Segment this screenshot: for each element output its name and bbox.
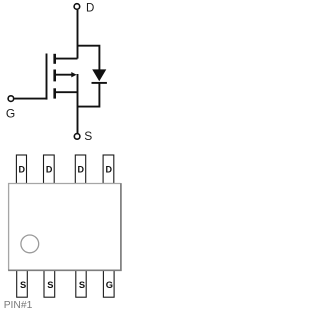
svg-text:S: S (84, 129, 92, 143)
wire body contact (55, 74, 74, 76)
svg-text:D: D (18, 165, 25, 175)
pin 5 bottom G (103, 270, 114, 297)
wire drain vertical (77, 10, 79, 59)
svg-text:D: D (46, 165, 53, 175)
wire diode-to-source (78, 83, 100, 107)
pin 6 bottom S (76, 270, 86, 297)
pin 4 top D (103, 155, 114, 184)
svg-text:S: S (20, 280, 26, 290)
svg-text:D: D (77, 165, 84, 175)
mosfet gate bar (46, 54, 48, 100)
wire drain-to-diode branch (78, 46, 100, 70)
diode cathode bar (92, 82, 107, 84)
terminal S circle (74, 134, 80, 140)
package body right and bottom edges (8, 183, 121, 270)
pin 7 bottom S (44, 270, 55, 297)
wire source contact (55, 91, 78, 93)
pin 8 bottom S (17, 270, 28, 297)
svg-text:S: S (47, 280, 53, 290)
svg-text:D: D (86, 2, 94, 14)
svg-text:S: S (79, 280, 85, 290)
mosfet channel segment 3 (53, 88, 56, 98)
wire gate (14, 98, 47, 100)
diode body-diode triangle (92, 69, 106, 81)
svg-text:G: G (106, 280, 113, 290)
pin 1 top D (16, 155, 26, 184)
pin1 indicator circle (21, 235, 39, 253)
pin 3 top D (75, 155, 85, 184)
package body (9, 184, 121, 271)
svg-text:D: D (105, 165, 112, 175)
terminal G circle (8, 96, 14, 102)
mosfet channel segment 2 (53, 70, 56, 82)
svg-text:G: G (6, 107, 15, 121)
package body top and left edges (9, 184, 121, 271)
body arrow (71, 72, 76, 77)
terminal D circle (74, 4, 80, 10)
wire drain contact (55, 58, 78, 60)
mosfet channel segment 1 (53, 54, 56, 64)
svg-text:PIN#1: PIN#1 (4, 300, 33, 311)
pin 2 top D (44, 155, 55, 184)
wire source vertical (77, 74, 79, 133)
